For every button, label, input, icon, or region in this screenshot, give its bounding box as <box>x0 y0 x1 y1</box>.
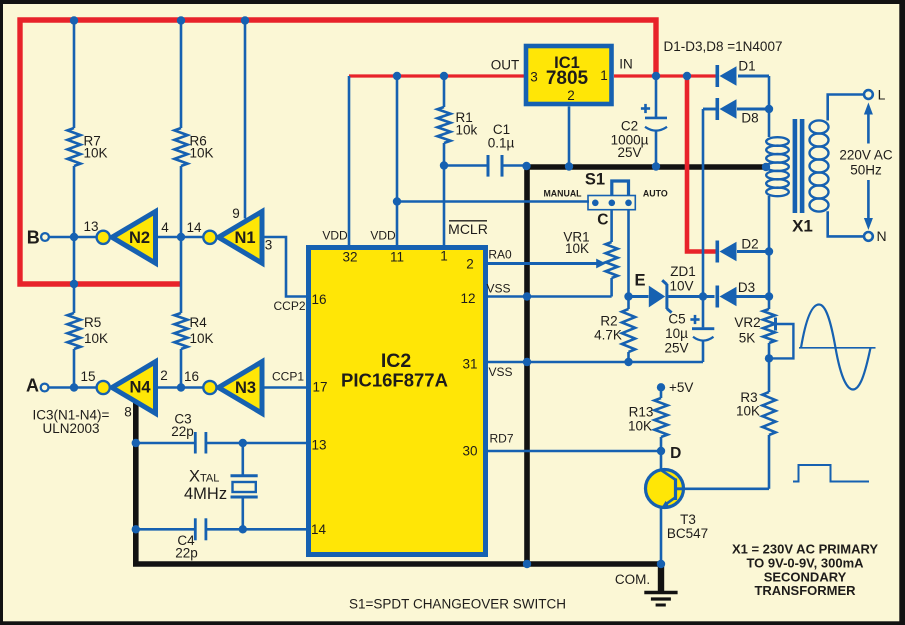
svg-text:AUTO: AUTO <box>643 189 668 199</box>
svg-text:VSS: VSS <box>486 282 510 296</box>
svg-text:D1-D3,D8 =1N4007: D1-D3,D8 =1N4007 <box>664 39 783 54</box>
svg-text:32: 32 <box>342 250 357 265</box>
svg-text:7805: 7805 <box>546 68 589 89</box>
svg-text:A: A <box>26 376 39 396</box>
svg-text:220V AC: 220V AC <box>839 148 893 163</box>
svg-text:TRANSFORMER: TRANSFORMER <box>754 583 856 598</box>
svg-text:10K: 10K <box>565 241 589 256</box>
svg-text:IN: IN <box>619 57 633 72</box>
svg-text:L: L <box>878 87 886 103</box>
svg-text:VR2: VR2 <box>734 315 760 330</box>
svg-text:VDD: VDD <box>370 229 396 243</box>
svg-text:D1: D1 <box>738 59 755 74</box>
svg-text:22p: 22p <box>175 546 198 561</box>
svg-text:OUT: OUT <box>491 58 520 73</box>
svg-text:31: 31 <box>462 357 477 372</box>
svg-text:X1: X1 <box>792 217 813 236</box>
svg-text:N: N <box>876 228 886 244</box>
svg-text:10V: 10V <box>669 279 693 294</box>
svg-text:C2: C2 <box>621 119 638 134</box>
svg-text:S1: S1 <box>585 171 605 189</box>
svg-text:10K: 10K <box>736 404 760 419</box>
svg-text:13: 13 <box>83 219 98 234</box>
svg-text:16: 16 <box>184 369 199 384</box>
svg-text:VSS: VSS <box>488 365 512 379</box>
svg-text:E: E <box>634 272 645 290</box>
svg-text:8: 8 <box>124 405 132 420</box>
svg-text:10K: 10K <box>628 419 652 434</box>
svg-text:ZD1: ZD1 <box>670 264 696 279</box>
svg-text:3: 3 <box>530 70 538 85</box>
svg-text:R5: R5 <box>84 315 101 330</box>
svg-text:RA0: RA0 <box>488 248 512 262</box>
svg-text:10µ: 10µ <box>665 326 688 341</box>
svg-text:4.7K: 4.7K <box>594 328 622 343</box>
svg-text:PIC16F877A: PIC16F877A <box>341 370 448 391</box>
svg-text:30: 30 <box>462 444 477 459</box>
svg-text:3: 3 <box>265 238 273 253</box>
svg-text:D: D <box>670 445 681 462</box>
svg-text:1: 1 <box>600 68 608 83</box>
svg-text:11: 11 <box>390 250 404 265</box>
svg-text:10k: 10k <box>456 123 478 138</box>
svg-text:14: 14 <box>186 220 202 235</box>
svg-text:C5: C5 <box>668 312 685 327</box>
svg-text:22p: 22p <box>171 424 194 439</box>
svg-text:T3: T3 <box>680 512 696 527</box>
svg-text:+5V: +5V <box>669 380 693 395</box>
svg-text:R2: R2 <box>600 314 617 329</box>
svg-text:D2: D2 <box>741 237 758 252</box>
svg-text:IC2: IC2 <box>381 350 412 372</box>
svg-text:RD7: RD7 <box>489 432 513 446</box>
svg-text:4MHz: 4MHz <box>184 485 227 503</box>
svg-text:X1 = 230V AC PRIMARY: X1 = 230V AC PRIMARY <box>732 542 878 557</box>
svg-text:CCP2: CCP2 <box>273 299 305 313</box>
svg-text:ULN2003: ULN2003 <box>42 421 99 436</box>
svg-text:N2: N2 <box>129 229 150 247</box>
svg-text:COM.: COM. <box>615 572 650 587</box>
svg-text:10K: 10K <box>190 331 214 346</box>
svg-text:4: 4 <box>161 220 169 235</box>
svg-text:5K: 5K <box>739 331 756 346</box>
svg-text:10K: 10K <box>190 146 214 161</box>
svg-text:9: 9 <box>232 206 240 221</box>
svg-text:CCP1: CCP1 <box>272 370 304 384</box>
svg-text:R4: R4 <box>190 315 208 330</box>
svg-text:N3: N3 <box>235 379 256 397</box>
svg-text:14: 14 <box>311 522 327 537</box>
svg-text:13: 13 <box>311 438 326 453</box>
svg-text:16: 16 <box>311 292 326 307</box>
svg-text:2: 2 <box>160 368 168 383</box>
svg-text:BC547: BC547 <box>667 526 708 541</box>
svg-text:50Hz: 50Hz <box>850 163 882 178</box>
svg-text:25V: 25V <box>617 145 641 160</box>
svg-text:C: C <box>597 211 608 228</box>
svg-text:S1=SPDT CHANGEOVER SWITCH: S1=SPDT CHANGEOVER SWITCH <box>349 597 566 612</box>
svg-text:2: 2 <box>466 257 474 272</box>
svg-text:MCLR: MCLR <box>448 221 488 237</box>
svg-text:12: 12 <box>460 291 475 306</box>
svg-text:15: 15 <box>80 369 95 384</box>
svg-text:B: B <box>27 227 40 247</box>
svg-text:17: 17 <box>312 380 327 395</box>
svg-text:25V: 25V <box>664 341 688 356</box>
svg-text:D8: D8 <box>741 111 758 126</box>
svg-text:TO 9V-0-9V, 300mA: TO 9V-0-9V, 300mA <box>746 556 864 571</box>
svg-text:10K: 10K <box>84 331 108 346</box>
svg-text:VDD: VDD <box>322 229 348 243</box>
svg-text:N1: N1 <box>234 229 255 247</box>
svg-text:0.1µ: 0.1µ <box>488 136 515 151</box>
svg-text:MANUAL: MANUAL <box>543 189 582 199</box>
svg-text:2: 2 <box>567 88 575 103</box>
svg-text:10K: 10K <box>84 146 108 161</box>
svg-text:R13: R13 <box>629 405 654 420</box>
svg-text:D3: D3 <box>738 280 755 295</box>
svg-text:N4: N4 <box>129 379 151 397</box>
svg-text:1: 1 <box>440 249 448 264</box>
